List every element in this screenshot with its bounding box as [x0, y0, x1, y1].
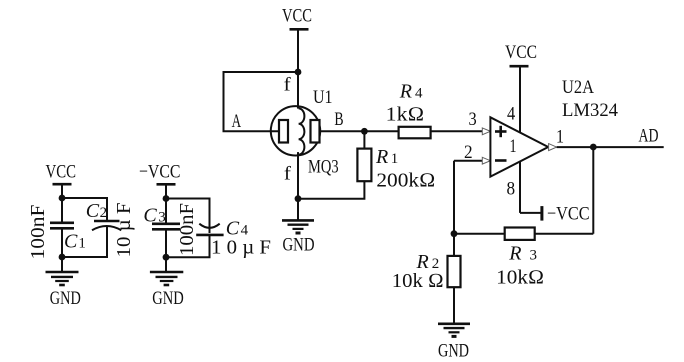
GND label (C3 C4) [152, 288, 184, 309]
sensor electrode left [279, 120, 288, 143]
capacitor C3 [152, 224, 180, 230]
svg-text:R1: R1 [375, 146, 398, 168]
C2 reference label [86, 200, 107, 222]
svg-text:10k Ω: 10k Ω [392, 270, 444, 292]
pin 2 label [464, 142, 473, 163]
C1 value 100nF rotated [28, 204, 49, 259]
R3 value 10kohm [496, 267, 544, 289]
LM324 value label [562, 100, 618, 121]
wire pin 2 [454, 160, 483, 162]
wire loop to electrode A [224, 72, 299, 131]
svg-text:MQ3: MQ3 [308, 157, 339, 178]
GND label (R2) [438, 341, 469, 362]
wire feedback vertical [592, 147, 594, 234]
R3 reference label [508, 243, 537, 265]
C2 value 10uF rotated [114, 202, 135, 257]
wire R2 to ground [453, 287, 455, 324]
svg-text:GND: GND [438, 341, 469, 362]
svg-text:8: 8 [507, 179, 516, 200]
svg-text:GND: GND [152, 288, 184, 309]
power VCC (sensor supply) [282, 6, 312, 27]
svg-text:1kΩ: 1kΩ [386, 104, 425, 126]
R1 value 200kohm [376, 170, 435, 192]
VCC rail bar (op-amp) [510, 65, 529, 68]
pin 3 input arrow [482, 128, 490, 135]
U2A reference label [562, 77, 594, 98]
pin 3 label [469, 109, 477, 130]
svg-text:U2A: U2A [562, 77, 594, 98]
wire C2 bottom [62, 227, 107, 258]
wire R4 to pin 3 [431, 130, 483, 132]
resistor R2 [448, 256, 461, 287]
C1 reference label [64, 231, 86, 253]
svg-text:4: 4 [507, 104, 516, 125]
wire R3 left to node [454, 233, 505, 235]
wire C4 bottom [166, 235, 210, 257]
R4 value 1kohm [386, 104, 425, 126]
wire R1 bottom to sensor bottom node [298, 181, 364, 199]
pin f bottom label [284, 163, 292, 184]
wire C3 to ground [165, 228, 167, 271]
svg-text:GND: GND [283, 235, 315, 256]
wire branch to C2 [62, 198, 107, 221]
wire R3 right [535, 233, 594, 235]
wire output to AD [557, 146, 664, 148]
svg-text:AD: AD [639, 126, 659, 147]
junction node B / R1 / R4 [361, 128, 368, 135]
ground (C3 C4) [150, 272, 183, 285]
pin 8 label [507, 179, 516, 200]
sensor electrode right [311, 120, 320, 143]
junction inverting node [451, 230, 458, 237]
resistor R3 [505, 228, 535, 240]
pin 1 label [556, 127, 564, 148]
capacitor C4 polarized [196, 224, 223, 235]
svg-text:VCC: VCC [46, 162, 77, 183]
svg-text:3: 3 [469, 109, 477, 130]
gas sensor U1 body circle [271, 106, 320, 155]
MQ3 value label [308, 157, 339, 178]
ground (sensor) [282, 220, 314, 233]
svg-text:GND: GND [50, 288, 81, 309]
junction C1 top node [59, 195, 66, 202]
pin 2 input arrow [482, 157, 490, 164]
svg-text:U1: U1 [313, 87, 333, 108]
svg-text:f: f [284, 74, 292, 95]
sensor heater coil [299, 108, 305, 154]
svg-text:200kΩ: 200kΩ [376, 170, 435, 192]
power VCC (op-amp) [505, 42, 537, 63]
VCC rail bar [290, 28, 309, 31]
svg-text:LM324: LM324 [562, 100, 618, 121]
junction output node [590, 144, 597, 151]
svg-text:C3: C3 [143, 204, 165, 226]
R2 reference label [416, 251, 440, 273]
wire sensor bottom [297, 152, 299, 220]
AD net label [639, 126, 659, 147]
wire branch to C4 [166, 199, 210, 234]
svg-text:2: 2 [464, 142, 473, 163]
svg-text:10kΩ: 10kΩ [496, 267, 544, 289]
svg-text:C2: C2 [86, 200, 107, 222]
svg-text:1 0 µ F: 1 0 µ F [211, 236, 271, 258]
svg-text:R4: R4 [399, 80, 423, 102]
svg-text:A: A [232, 111, 242, 132]
resistor R1 [357, 131, 371, 181]
ground (R2) [438, 324, 470, 337]
power -VCC (decoupling C3 C4) [139, 162, 181, 183]
wire -VCC down [165, 184, 167, 222]
svg-text:10 µ F: 10 µ F [114, 202, 135, 257]
GND label (C1 C2) [50, 288, 81, 309]
-VCC rail bar [540, 206, 543, 221]
wire VCC down [61, 184, 63, 222]
svg-text:R3: R3 [508, 243, 537, 265]
junction top node [295, 69, 302, 76]
output arrow [549, 144, 557, 151]
node A label [232, 111, 242, 132]
wire pin2 down to node [453, 161, 455, 256]
U1 reference label [313, 87, 333, 108]
C4 reference label [226, 217, 249, 239]
C4 value 10uF [211, 236, 271, 258]
capacitor C2 polarized [92, 221, 121, 230]
C3 reference label [143, 204, 165, 226]
svg-text:100nF: 100nF [177, 203, 198, 256]
VCC rail bar (C1) [53, 183, 72, 186]
wire VCC to node [297, 29, 299, 72]
pin f top label [284, 74, 292, 95]
R1 reference label [375, 146, 398, 168]
op-amp internal 1 label [510, 136, 517, 157]
junction C1 bottom node [59, 254, 66, 261]
wire heater top into sensor [297, 72, 299, 109]
svg-text:100nF: 100nF [28, 204, 49, 259]
svg-text:−VCC: −VCC [547, 204, 590, 225]
wire C1 to ground [61, 228, 63, 271]
ground (C1 C2) [46, 272, 79, 285]
svg-text:1: 1 [510, 136, 517, 157]
op-amp plus sign [495, 126, 507, 137]
svg-text:VCC: VCC [505, 42, 537, 63]
resistor R4 [364, 127, 430, 139]
junction sensor bottom node [295, 195, 302, 202]
junction C3 top node [163, 195, 170, 202]
svg-text:C1: C1 [64, 231, 86, 253]
svg-text:1: 1 [556, 127, 564, 148]
op-amp minus sign [495, 159, 507, 162]
R2 value 10kohm [392, 270, 444, 292]
C3 value 100nF rotated [177, 203, 198, 256]
wire pin 8 to -VCC [520, 212, 541, 214]
svg-text:VCC: VCC [282, 6, 312, 27]
GND label (sensor) [283, 235, 315, 256]
power VCC (decoupling C1 C2) [46, 162, 77, 183]
op-amp U2A triangle [490, 117, 548, 176]
wire electrode B to R4 node [320, 130, 365, 132]
svg-text:f: f [284, 163, 292, 184]
junction C3 bottom node [163, 254, 170, 261]
svg-text:B: B [334, 109, 343, 130]
R4 reference label [399, 80, 423, 102]
capacitor C1 [50, 223, 74, 229]
pin 4 label [507, 104, 516, 125]
-VCC rail bar (C3) [157, 183, 176, 186]
wire pin 4 power [519, 66, 521, 213]
node B label [334, 109, 343, 130]
svg-text:−VCC: −VCC [139, 162, 181, 183]
-VCC label [547, 204, 590, 225]
